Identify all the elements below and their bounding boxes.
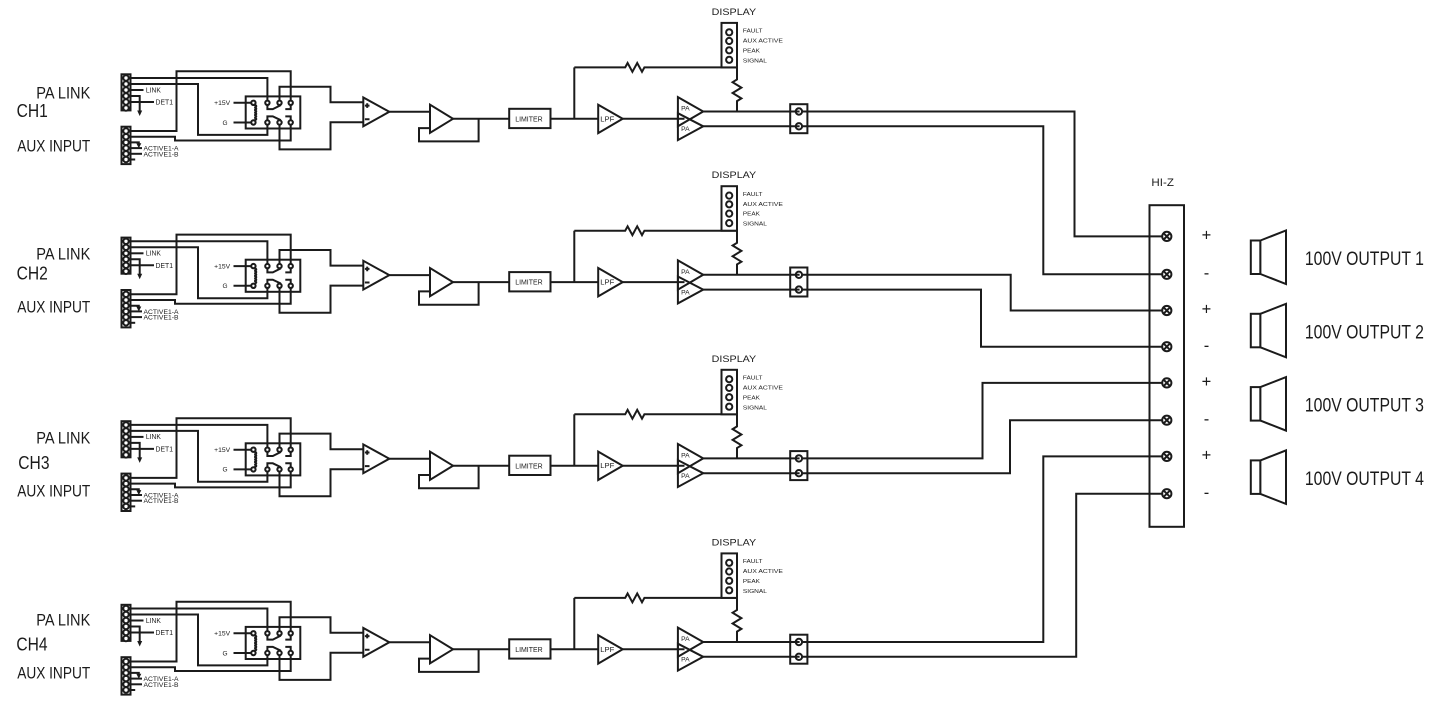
svg-text:+: + xyxy=(1202,301,1212,319)
svg-text:+: + xyxy=(1202,447,1212,465)
svg-text:PA LINK: PA LINK xyxy=(36,246,90,264)
svg-text:CH2: CH2 xyxy=(17,264,48,284)
svg-text:100V OUTPUT 3: 100V OUTPUT 3 xyxy=(1305,396,1424,417)
svg-text:AUX INPUT: AUX INPUT xyxy=(17,299,90,317)
svg-text:PA LINK: PA LINK xyxy=(36,430,90,448)
svg-text:-: - xyxy=(1204,337,1210,355)
svg-text:+: + xyxy=(1202,227,1212,245)
svg-text:100V OUTPUT 2: 100V OUTPUT 2 xyxy=(1305,322,1424,343)
svg-text:-: - xyxy=(1204,411,1210,429)
svg-text:PA LINK: PA LINK xyxy=(36,612,90,630)
svg-text:PA LINK: PA LINK xyxy=(36,85,90,103)
svg-text:100V OUTPUT 1: 100V OUTPUT 1 xyxy=(1305,249,1424,270)
svg-text:HI-Z: HI-Z xyxy=(1151,177,1174,189)
svg-text:+: + xyxy=(1202,373,1212,391)
svg-text:CH3: CH3 xyxy=(18,453,49,473)
svg-text:CH1: CH1 xyxy=(17,101,48,121)
svg-text:CH4: CH4 xyxy=(16,634,47,654)
svg-text:AUX INPUT: AUX INPUT xyxy=(17,137,90,155)
svg-text:100V OUTPUT 4: 100V OUTPUT 4 xyxy=(1305,469,1424,490)
svg-text:-: - xyxy=(1204,265,1210,283)
svg-text:-: - xyxy=(1204,484,1210,502)
svg-text:AUX INPUT: AUX INPUT xyxy=(17,483,90,501)
svg-text:AUX INPUT: AUX INPUT xyxy=(17,665,90,683)
